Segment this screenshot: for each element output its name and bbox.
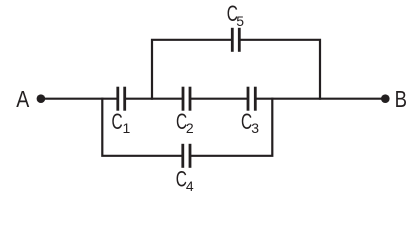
svg-text:1: 1 (123, 120, 131, 136)
wire main line C3 to B (255, 98, 385, 100)
wire top branch right (C5 to vertical down) (239, 40, 320, 100)
wire main line C2 to C3 (190, 98, 248, 100)
label C4 (176, 168, 194, 194)
wire main line C1 to C2 (125, 98, 183, 100)
capacitor C1 (118, 87, 125, 111)
terminal A dot (37, 94, 46, 103)
svg-text:2: 2 (186, 120, 194, 136)
capacitor C5 (232, 28, 239, 52)
capacitor C2 (183, 87, 190, 111)
capacitor C3 (248, 87, 255, 111)
label C1 (112, 110, 131, 136)
svg-text:5: 5 (236, 13, 244, 29)
wire main line A to C1 (41, 98, 118, 100)
svg-text:C: C (112, 110, 123, 134)
wire top branch left (vertical + horizontal to C5) (152, 40, 232, 100)
svg-text:4: 4 (186, 178, 194, 194)
wire bottom branch left (vertical + horizontal to C4) (102, 98, 183, 156)
wire bottom branch right (C4 to vertical up) (190, 98, 272, 156)
label C5 (227, 2, 245, 29)
svg-text:3: 3 (251, 120, 259, 136)
label C2 (176, 110, 194, 136)
terminal B dot (381, 94, 390, 103)
svg-text:A: A (16, 85, 30, 112)
label C3 (241, 110, 259, 136)
capacitor C4 (183, 144, 190, 168)
svg-text:B: B (395, 87, 407, 113)
